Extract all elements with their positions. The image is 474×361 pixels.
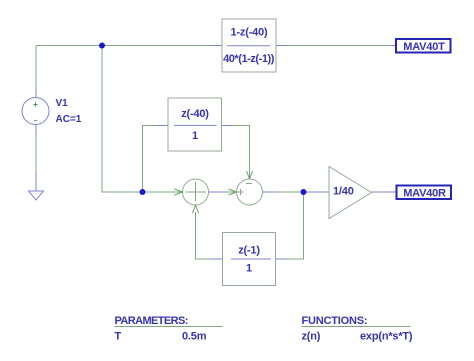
pin stub V1 top [35, 88, 37, 98]
ground [29, 172, 44, 200]
wire top rail from V1 corner to block E1 input [36, 45, 212, 47]
svg-text:FUNCTIONS:: FUNCTIONS: [302, 315, 368, 327]
wire vertical from node A down to main rail [102, 46, 143, 193]
pin stub S1 output [209, 191, 228, 193]
svg-text:z(-40): z(-40) [181, 108, 209, 120]
pin stub z(-40) output [222, 125, 233, 127]
svg-text:40*(1-z(-1)): 40*(1-z(-1)) [223, 53, 275, 65]
pin stub V1 bottom [35, 125, 37, 137]
svg-text:T: T [115, 331, 122, 343]
block E1 transfer function [222, 19, 276, 72]
wire node B up to z(-40) input [143, 126, 157, 193]
svg-text:V1: V1 [56, 98, 69, 109]
svg-text:MAV40R: MAV40R [403, 188, 446, 200]
node A junction dot [99, 43, 105, 49]
svg-text:1/40: 1/40 [333, 186, 354, 198]
S2 minus sign [246, 183, 252, 185]
svg-text:1: 1 [246, 263, 252, 275]
svg-text:MAV40T: MAV40T [403, 41, 445, 53]
arrow into S1 left [175, 189, 183, 195]
arrow into S1 bottom [193, 205, 199, 213]
pin stub amp input [305, 191, 329, 193]
wire z(-40) output to summer S2 top [232, 126, 250, 179]
arrow into S2 top [247, 171, 253, 179]
wire main rail node B to summer S1 input [143, 191, 183, 193]
svg-text:AC=1: AC=1 [56, 114, 82, 125]
svg-text:z(-1): z(-1) [238, 245, 260, 257]
svg-text:z(n): z(n) [302, 331, 321, 343]
amp X1 1/40 [329, 167, 372, 219]
wire vertical left drop to V1 [35, 46, 37, 89]
arrow into S2 left [229, 189, 237, 195]
pin stub S2 output [263, 191, 277, 193]
S2 plus sign [238, 189, 244, 195]
pin stub E1 input [212, 45, 222, 47]
pin stub MAV40T [390, 45, 396, 47]
output tag MAV40R [397, 186, 452, 200]
block E3 z(-1)/1 [223, 233, 276, 286]
summer S2 [237, 179, 263, 205]
wire E1 output to MAV40T [286, 45, 390, 47]
node B junction dot [140, 189, 146, 195]
pin stub z(-1) output [211, 258, 223, 260]
wire V1 bottom to ground lead [35, 134, 37, 172]
pin stub z(-1) input [276, 258, 286, 260]
underline parameters [115, 326, 223, 328]
svg-text:PARAMETERS:: PARAMETERS: [115, 315, 188, 327]
pin stub amp output to MAV40R [372, 191, 397, 193]
voltage source V1 [22, 98, 49, 125]
wire S2 output to node C [276, 191, 304, 193]
output tag MAV40T [396, 39, 451, 53]
svg-text:0.5m: 0.5m [182, 331, 207, 343]
wire z(-1) output left and up to summer S1 bottom [196, 212, 212, 259]
pin stub z(-40) input [155, 125, 169, 127]
wire feedback node C down to z(-1) input [286, 192, 304, 259]
S1 plus cross [186, 182, 207, 201]
node C junction dot [301, 189, 307, 195]
svg-text:1-z(-40): 1-z(-40) [231, 27, 268, 39]
svg-text:1: 1 [192, 130, 198, 142]
summer S1 [183, 179, 209, 205]
block E2 z(-40)/1 [168, 98, 222, 151]
pin stub E1 output [276, 45, 286, 47]
wire S1 to S2 green part [227, 191, 236, 193]
svg-text:exp(n*s*T): exp(n*s*T) [360, 331, 413, 343]
underline functions [302, 326, 411, 328]
